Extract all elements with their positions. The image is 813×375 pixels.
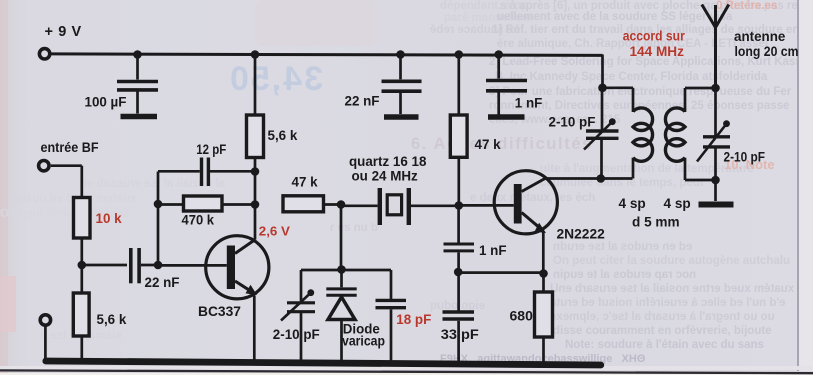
- svg-text:10 k: 10 k: [96, 211, 123, 226]
- svg-text:2,6 V: 2,6 V: [259, 223, 290, 238]
- ground tank right: [699, 180, 734, 205]
- svg-text:4 sp: 4 sp: [619, 196, 646, 211]
- faint show-through background texts (decorative): [0, 0, 813, 1]
- wire 2N2222 emitter: [542, 231, 545, 274]
- svg-text:470 k: 470 k: [182, 213, 215, 228]
- node tank left bottom: [597, 174, 606, 183]
- svg-text:2-10 pF: 2-10 pF: [273, 327, 320, 342]
- wire quartz node down: [340, 205, 343, 271]
- svg-text:accord sur: accord sur: [623, 29, 686, 44]
- transistor BC337: [158, 223, 290, 319]
- svg-text:2-10 pF: 2-10 pF: [549, 115, 596, 130]
- svg-text:33 pF: 33 pF: [441, 327, 479, 342]
- svg-text:varicap: varicap: [342, 334, 385, 349]
- wire entrée BF to 10k: [51, 164, 82, 167]
- capacitor C 100µF: [85, 55, 159, 114]
- node rail/22nF: [396, 50, 405, 59]
- terminal entrée BF: [39, 140, 99, 171]
- capacitor 1 nF (base): [444, 206, 507, 273]
- inductor L2 4 sp: [664, 88, 691, 211]
- capacitor 22 nF (coupling): [131, 248, 180, 290]
- node rail/5,6k: [251, 50, 260, 59]
- wire collector to tank: [545, 177, 633, 180]
- wire emitter node: [458, 271, 543, 274]
- node 470k/47k collector: [251, 200, 260, 209]
- svg-text:BC337: BC337: [198, 304, 241, 319]
- node emitter/680: [539, 269, 548, 278]
- page rule line: [0, 370, 813, 373]
- node 12pF/collector line: [251, 167, 260, 176]
- transistor 2N2222: [494, 171, 605, 242]
- node 47k/quartz: [337, 200, 346, 209]
- wire node to 22nF: [82, 264, 127, 267]
- diode varicap: [326, 270, 385, 361]
- ground rail: [46, 361, 601, 365]
- svg-text:d 5 mm: d 5 mm: [632, 215, 680, 230]
- wire base node up: [157, 172, 160, 266]
- node rail/100µF: [133, 50, 142, 59]
- svg-text:2N2222: 2N2222: [557, 227, 606, 242]
- resistor 680: [510, 274, 553, 364]
- wire varicap crossbar: [301, 269, 391, 272]
- wire base 2N2222: [459, 204, 514, 207]
- node rail/47k: [455, 50, 464, 59]
- svg-text:144 MHz: 144 MHz: [630, 44, 685, 59]
- resistor 10 k: [74, 166, 123, 265]
- terminal BF ground: [40, 315, 50, 361]
- svg-text:5,6 k: 5,6 k: [268, 128, 298, 143]
- capacitor 12 pF: [158, 142, 255, 186]
- node tank left top: [598, 84, 607, 93]
- svg-text:1 nF: 1 nF: [479, 243, 507, 258]
- resistor 5,6 k (lower): [73, 265, 127, 361]
- trimmer capacitor 2-10 pF (tank left): [549, 88, 619, 179]
- resistor 470 k: [158, 196, 255, 228]
- capacitor 33 pF: [441, 272, 479, 361]
- wire tank top left: [603, 86, 634, 89]
- resistor 5,6 k (upper): [247, 55, 298, 158]
- node antenna: [711, 84, 720, 93]
- node 10k/5,6k/22nF: [78, 261, 87, 270]
- svg-text:100 µF: 100 µF: [85, 95, 127, 110]
- wire tank top right: [685, 87, 716, 90]
- svg-text:+ 9 V: + 9 V: [45, 24, 82, 40]
- svg-text:4 sp: 4 sp: [664, 196, 691, 211]
- svg-text:ou 24 MHz: ou 24 MHz: [352, 169, 419, 184]
- inductor L1 4 sp: [619, 88, 680, 230]
- terminal +9V: [39, 24, 81, 59]
- resistor 47 k (horizontal): [283, 175, 341, 212]
- antenna: [623, 5, 799, 89]
- svg-text:12 pF: 12 pF: [196, 142, 226, 157]
- svg-text:22 nF: 22 nF: [345, 94, 380, 109]
- wire BC337 emitter to ground: [253, 296, 256, 362]
- node 470k left: [154, 200, 163, 209]
- trimmer capacitor 2-10 pF (tank right): [697, 88, 765, 180]
- wire collector line: [254, 157, 257, 239]
- node 1nF/33pF: [454, 268, 463, 277]
- svg-text:long 20 cm: long 20 cm: [735, 44, 799, 59]
- svg-text:22 nF: 22 nF: [145, 275, 180, 290]
- svg-text:antenne: antenne: [734, 29, 785, 44]
- ground under 100µF: [121, 114, 158, 120]
- wire +9V rail: [52, 54, 603, 56]
- svg-text:quartz 16 18: quartz 16 18: [349, 154, 427, 169]
- svg-text:47 k: 47 k: [292, 175, 319, 190]
- wire rail drop to tank: [601, 55, 604, 89]
- wire tank bottom right: [685, 179, 716, 182]
- svg-text:680: 680: [510, 308, 534, 324]
- capacitor 22 nF (top): [345, 55, 422, 115]
- node rail/1nF: [494, 50, 503, 59]
- svg-text:entrée BF: entrée BF: [41, 140, 99, 155]
- svg-text:18 pF: 18 pF: [396, 312, 431, 327]
- resistor 47 k (vertical): [450, 55, 501, 206]
- node tank right ground: [711, 176, 720, 185]
- svg-text:2-10 pF: 2-10 pF: [724, 150, 766, 165]
- svg-text:5,6 k: 5,6 k: [97, 312, 127, 327]
- node quartz/base 2N2222: [455, 201, 464, 210]
- capacitor 1 nF (top): [486, 55, 542, 116]
- node varicap: [337, 265, 346, 274]
- ground under 1nF: [488, 114, 525, 120]
- trimmer capacitor 2-10 pF (varicap side): [273, 270, 320, 361]
- node 22nF/base: [154, 261, 163, 270]
- quartz crystal 16 18 ou 24 MHz: [341, 154, 459, 225]
- capacitor 18 pF: [376, 270, 432, 361]
- ground under 22nF: [384, 114, 419, 120]
- svg-text:47 k: 47 k: [475, 137, 502, 152]
- svg-text:1 nF: 1 nF: [515, 95, 543, 110]
